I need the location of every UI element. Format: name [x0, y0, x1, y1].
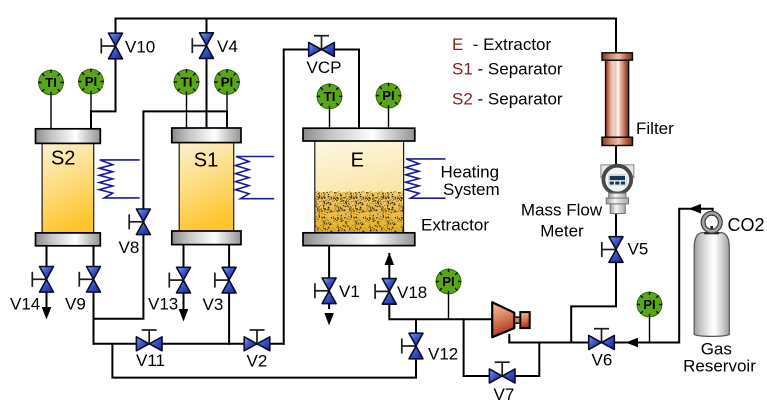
vessel S1 top cap	[172, 128, 241, 143]
svg-text:System: System	[443, 180, 500, 199]
heating coil S2 heater	[99, 160, 140, 198]
filter bottom cap	[602, 137, 633, 145]
valve V9	[79, 267, 100, 293]
wire V3 drain	[228, 244, 230, 345]
svg-text:S1 - Separator: S1 - Separator	[452, 60, 563, 79]
svg-text:V1: V1	[339, 282, 360, 301]
wire V1 drain	[328, 246, 330, 310]
wire stem TI S2	[50, 93, 52, 130]
wire stem TI E	[329, 108, 331, 131]
wire pump outlet	[508, 334, 510, 343]
wire V7 bypass	[464, 318, 540, 376]
wire filter to flow meter	[615, 53, 617, 167]
mass flow meter	[601, 165, 634, 214]
wire V6 line	[508, 342, 679, 344]
heating coil S1 heater	[236, 157, 275, 199]
svg-text:V8: V8	[119, 238, 140, 257]
svg-text:V7: V7	[494, 385, 515, 404]
svg-text:V5: V5	[628, 240, 649, 259]
svg-text:Mass Flow: Mass Flow	[521, 201, 603, 220]
svg-text:TI: TI	[324, 89, 336, 104]
svg-text:PI: PI	[85, 74, 97, 89]
svg-text:Heating: Heating	[441, 163, 500, 182]
valve V14	[32, 267, 53, 293]
wire V11 V2 line	[94, 343, 285, 345]
vessel E bottom cap	[303, 233, 415, 246]
svg-text:PI: PI	[221, 75, 233, 90]
svg-text:V6: V6	[592, 351, 613, 370]
wire V9 drain	[93, 245, 95, 345]
wire stem PI S1	[226, 93, 228, 112]
svg-text:CO2: CO2	[728, 215, 765, 235]
arrow flow into V6	[626, 338, 639, 348]
wire S1 nozzle to V8 to V9 junction	[94, 111, 228, 318]
gauge PI V6	[637, 292, 663, 318]
valve VCP	[309, 36, 335, 57]
svg-text:V12: V12	[428, 345, 458, 364]
svg-text:V13: V13	[148, 295, 178, 314]
wire V18 line to pump inlet	[388, 253, 492, 319]
wire stem PI V6	[649, 316, 651, 343]
svg-text:V14: V14	[10, 295, 40, 314]
svg-text:V11: V11	[136, 351, 165, 370]
svg-text:S2 - Separator: S2 - Separator	[452, 89, 563, 108]
wire VCP loop	[284, 50, 359, 345]
valve V13	[169, 267, 190, 293]
valve V18	[375, 279, 396, 305]
wire top header	[116, 19, 617, 55]
valve V11	[136, 330, 162, 351]
svg-text:E: E	[351, 150, 364, 172]
valve V6	[589, 329, 615, 350]
vessel E body upper	[315, 139, 404, 234]
svg-text:V9: V9	[65, 295, 86, 314]
svg-text:V2: V2	[247, 352, 268, 371]
valve V12	[402, 333, 423, 359]
gauge PI S2	[78, 69, 104, 95]
wire stem PI pump	[448, 293, 450, 320]
svg-text:Extractor: Extractor	[421, 216, 489, 235]
heating coil E heater	[406, 159, 446, 198]
wire stem PI S2	[90, 92, 92, 112]
valve V7	[489, 362, 515, 383]
valve V3	[215, 267, 236, 293]
valve V10	[101, 33, 122, 59]
svg-text:PI: PI	[442, 274, 454, 289]
vessel E top cap	[303, 128, 415, 141]
wire stem PI E	[388, 107, 390, 131]
vessel S1 body	[179, 141, 234, 233]
svg-text:TI: TI	[181, 75, 193, 90]
vessel E outline	[315, 139, 404, 234]
svg-text:S1: S1	[194, 149, 218, 171]
vessel E packed bed	[315, 192, 404, 234]
svg-text:V4: V4	[217, 37, 238, 56]
wire V10 riser and drop to S2	[91, 18, 116, 131]
svg-text:V18: V18	[397, 283, 427, 302]
gauge TI S2	[38, 70, 64, 96]
svg-text:Filter: Filter	[636, 119, 674, 138]
vessel S2 body	[42, 141, 94, 235]
pump P1	[492, 302, 530, 337]
gauge PI E	[376, 83, 402, 109]
vessel S2 bottom cap	[36, 233, 101, 246]
gauge TI E	[317, 84, 343, 110]
valve V4	[192, 33, 213, 59]
vessel S1 bottom cap	[172, 231, 241, 245]
svg-text:S2: S2	[51, 148, 75, 170]
arrow vent V13	[179, 309, 189, 322]
svg-text:TI: TI	[45, 75, 57, 90]
svg-text:V3: V3	[203, 295, 224, 314]
gauge TI S1	[174, 69, 200, 95]
svg-text:VCP: VCP	[307, 58, 342, 77]
arrow vent V1	[324, 313, 334, 326]
arrow into extractor	[385, 253, 395, 266]
gauge PI pump	[436, 269, 462, 295]
wire flow meter to V5 to V6 line	[571, 213, 616, 344]
filter top cap	[602, 53, 633, 60]
wire V13 drain	[183, 244, 185, 309]
svg-text:E - Extractor: E - Extractor	[452, 35, 552, 54]
svg-text:PI: PI	[643, 297, 655, 312]
gauge PI S1	[214, 69, 240, 95]
CO2 cylinder	[694, 213, 729, 336]
wire blowdown bottom line	[112, 319, 416, 377]
valve V8	[129, 209, 150, 235]
vessel S2 top cap	[36, 129, 101, 144]
filter body	[606, 58, 629, 139]
arrow flow from CO2	[689, 204, 702, 214]
wire V4 drop to S1	[206, 18, 208, 131]
svg-text:Meter: Meter	[540, 222, 584, 241]
svg-text:Reservoir: Reservoir	[683, 357, 756, 376]
wire V14 drain	[46, 246, 48, 308]
svg-text:V10: V10	[125, 38, 155, 57]
valve V1	[315, 278, 336, 304]
arrow vent V14	[42, 307, 52, 320]
svg-text:PI: PI	[382, 88, 394, 103]
valve V5	[602, 237, 623, 263]
wire CO2 riser	[679, 209, 713, 344]
valve V2	[244, 330, 270, 351]
wire stem TI S1	[186, 93, 188, 130]
